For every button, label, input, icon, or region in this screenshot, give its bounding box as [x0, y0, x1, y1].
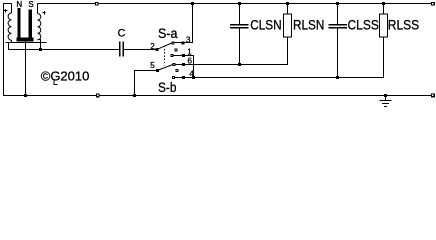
svg-text:S: S [28, 0, 33, 9]
label pin 2 [150, 42, 155, 51]
switch S-b throw pin 4 contact [172, 76, 175, 79]
label pin 6 [188, 57, 193, 66]
node S-winding bottom junction [39, 48, 42, 51]
node pin 1 wire joint [182, 54, 185, 57]
svg-text:S-a: S-a [158, 25, 178, 41]
svg-text:RLSS: RLSS [388, 16, 419, 32]
node center tap on bus [24, 94, 27, 97]
capacitor CLSS [329, 4, 347, 78]
wire pin 6 row [176, 37, 288, 65]
node pin 4 wire joint [182, 76, 185, 79]
label pin 5 [150, 61, 155, 70]
switch S-b pole [156, 65, 173, 73]
node OUT bottom-right terminal (open square) [431, 94, 435, 98]
svg-text:CLSS: CLSS [348, 16, 379, 32]
svg-text:RLSN: RLSN [293, 16, 324, 32]
label RLSN [293, 16, 324, 32]
resistor RLSS [380, 4, 388, 78]
wire top rail left segment [4, 4, 12, 96]
svg-text:6: 6 [188, 57, 193, 66]
svg-text:©G2010: ©G2010 [41, 69, 90, 84]
svg-text:5: 5 [150, 61, 155, 70]
node CLSN bottom [238, 63, 241, 66]
label CLSS [348, 16, 379, 32]
node CLSS bottom [336, 76, 339, 79]
switch S-b throw pin 6 contact [173, 63, 176, 66]
wire ground bus bottom [3, 95, 433, 97]
wire S-b pole feed from bus [135, 71, 156, 96]
resistor RLSN [284, 4, 292, 65]
node pin 6 wire joint [182, 63, 185, 66]
transformer T1 core [17, 8, 34, 42]
label pin 1 [187, 48, 192, 57]
wire pin 3 to top rail [175, 4, 193, 43]
node CLSS top [336, 2, 339, 5]
transformer T1 polarity dot + (N side) [4, 9, 7, 12]
svg-text:CLSN: CLSN [250, 16, 281, 32]
wire winding-bottoms tie [6, 42, 47, 44]
switch S-a pole [156, 43, 172, 51]
label copyright G 2010 [41, 69, 90, 85]
label S [28, 0, 33, 9]
switch S-b idle contact [176, 69, 179, 72]
svg-text:1: 1 [187, 48, 192, 57]
label pin 3 [186, 36, 191, 45]
svg-text:S-b: S-b [158, 79, 177, 95]
wire center tap to ground bus [25, 42, 27, 96]
node pin1-pin4 tie [192, 76, 195, 79]
switch S-a throw pin 1 contact [171, 54, 174, 57]
node S-b feed on bus [133, 94, 136, 97]
label S-b [158, 79, 177, 95]
transformer T1 polarity dot + (S side) [42, 11, 45, 14]
label RLSS [388, 16, 419, 32]
svg-text:2: 2 [150, 42, 155, 51]
node RLSS top [382, 2, 385, 5]
switch S-a idle contact [175, 49, 178, 52]
switch link dotted [164, 46, 166, 66]
switch S-a throw pin 3 contact [172, 42, 175, 45]
svg-text:3: 3 [186, 36, 191, 45]
node pin 3 on top rail [191, 2, 194, 5]
node CLSN top [238, 2, 241, 5]
node RLSN top [286, 2, 289, 5]
wire pin 4 row [175, 37, 384, 78]
svg-text:N: N [16, 0, 22, 9]
node IN bottom (open square) [96, 94, 100, 98]
capacitor C [119, 41, 156, 56]
label N [16, 0, 22, 9]
wire pin 1 cross-connect down [174, 56, 194, 78]
label C [118, 27, 126, 39]
svg-text:C: C [118, 27, 126, 39]
wire top rail main [38, 3, 434, 5]
node pin 3 wire joint [182, 41, 185, 44]
label S-a [158, 25, 178, 41]
capacitor CLSN [230, 4, 248, 65]
node IN top (open square) [95, 2, 99, 6]
node OUT top-right terminal (open square) [431, 2, 435, 6]
transformer T1 winding N [8, 4, 11, 43]
ground [380, 94, 392, 107]
label pin 4 [189, 70, 194, 79]
wire N-winding tap jog [9, 43, 120, 50]
label CLSN [250, 16, 281, 32]
transformer T1 winding S [38, 4, 41, 50]
